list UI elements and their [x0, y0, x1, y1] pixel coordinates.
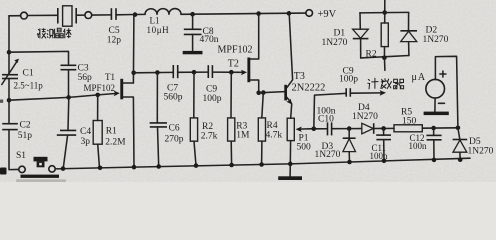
wire counter tap elbow: [314, 93, 346, 128]
capacitor C8: [184, 14, 202, 51]
label 被测晶体 (crystal under test): [37, 28, 71, 38]
junction node bridge bottom: [382, 55, 387, 60]
junction node T1 drain / C7: [131, 71, 136, 76]
resistor R2: [190, 72, 197, 165]
svg-text:560p: 560p: [164, 93, 183, 103]
scan tick left edge: [0, 100, 3, 103]
capacitor C5: [111, 8, 116, 20]
svg-text:C1: C1: [23, 69, 34, 79]
svg-text:D2: D2: [426, 26, 438, 36]
svg-text:MPF102: MPF102: [84, 83, 116, 93]
wire T3 base net: [259, 92, 285, 93]
transistor T1 MPF102 JFET: [120, 15, 134, 168]
ground under C8: [183, 51, 203, 54]
svg-text:D5: D5: [469, 137, 481, 147]
junction node D5 bottom: [458, 157, 463, 162]
blob bottom-left corner: [0, 168, 7, 175]
svg-text:C3: C3: [78, 64, 89, 74]
svg-text:270p: 270p: [165, 135, 184, 145]
ground main (below P1): [278, 164, 302, 180]
resistor R5: [394, 125, 422, 132]
diode D4: [362, 123, 374, 134]
wire bridge top rail: [360, 11, 409, 13]
svg-text:12p: 12p: [107, 36, 122, 46]
svg-text:C6: C6: [169, 124, 180, 134]
+9V supply terminal: [306, 9, 337, 20]
svg-text:51p: 51p: [18, 131, 33, 141]
svg-text:C9: C9: [206, 85, 217, 95]
diode D5: [453, 128, 468, 160]
wire ground rail: [55, 158, 470, 169]
terminal circle left of crystal: [21, 12, 28, 19]
svg-text:10μH: 10μH: [147, 25, 170, 35]
svg-text:L1: L1: [150, 16, 160, 26]
diode D2: [400, 12, 417, 55]
svg-text:R1: R1: [106, 127, 117, 137]
resistor R2 (meter shunt): [381, 23, 388, 58]
paper noise texture: [0, 0, 496, 182]
capacitor C3: [61, 65, 77, 97]
junction node R4 top: [261, 90, 266, 95]
svg-text:100n: 100n: [409, 141, 428, 151]
junction node at C5/T1 drain: [133, 12, 138, 17]
svg-text:1M: 1M: [236, 131, 250, 141]
svg-text:500: 500: [297, 143, 312, 153]
inductor L1: [145, 9, 181, 15]
wire top rail left (crystal row): [9, 13, 306, 16]
svg-text:1N270: 1N270: [322, 38, 348, 48]
junction node R2 bottom: [194, 163, 199, 168]
svg-text:μA: μA: [412, 72, 427, 83]
capacitor C4: [57, 97, 76, 168]
junction node bridge top: [382, 10, 387, 15]
switch S1: [19, 157, 59, 178]
junction node C6 bottom: [156, 164, 161, 169]
svg-text:3p: 3p: [81, 137, 91, 147]
wire left vertical (crystal to C1/C2): [9, 16, 19, 170]
svg-text:2.5~11p: 2.5~11p: [14, 81, 44, 91]
svg-text:56p: 56p: [78, 73, 93, 83]
diode D1: [353, 13, 369, 58]
junction node T3 collector: [287, 11, 292, 16]
wire to counter with arrow: [351, 90, 386, 96]
junction node D5 top / meter: [456, 126, 461, 131]
svg-text:150: 150: [402, 117, 417, 127]
svg-text:D1: D1: [334, 29, 346, 39]
potentiometer P1: [287, 118, 314, 164]
label 计数器 (counter): [367, 78, 403, 89]
junction node T1 source bottom: [132, 165, 137, 170]
junction node R3 bottom: [229, 163, 234, 168]
capacitor C10: [328, 122, 332, 135]
scan smudge under switch: [16, 179, 66, 182]
svg-text:T1: T1: [105, 72, 115, 82]
svg-text:MPF102: MPF102: [218, 45, 253, 56]
T1 gate arrowhead: [114, 91, 120, 97]
capacitor C12: [426, 128, 441, 160]
svg-text:S1: S1: [16, 151, 26, 161]
capacitor C2: [2, 124, 18, 130]
svg-text:C10: C10: [318, 115, 334, 125]
capacitor C6: [150, 73, 167, 167]
diode D3: [343, 129, 356, 162]
wire bridge center from top edge: [384, 0, 386, 23]
ground under meter: [424, 98, 449, 115]
junction node R3 top: [229, 70, 234, 75]
resistor R1: [93, 95, 102, 168]
svg-text:100p: 100p: [339, 75, 358, 85]
svg-text:C5: C5: [109, 26, 120, 36]
capacitor C11: [376, 128, 391, 160]
junction node gate wire left: [7, 98, 12, 103]
junction node D4/C11: [381, 126, 386, 131]
svg-text:1N270: 1N270: [423, 35, 449, 45]
junction node C10/D3/D4: [347, 126, 352, 131]
junction node C6 top: [155, 70, 160, 75]
transistor T2 MPF102 JFET: [241, 14, 259, 93]
svg-text:2.2M: 2.2M: [105, 138, 126, 148]
wire stub below bridge: [383, 58, 385, 71]
junction node at C8: [190, 12, 195, 17]
junction node C3/C4: [66, 95, 71, 100]
wire bridge bottom rail: [361, 56, 409, 58]
svg-text:2.7k: 2.7k: [201, 132, 218, 142]
junction node T2 drain: [256, 11, 261, 16]
svg-text:T3: T3: [294, 71, 305, 82]
svg-text:R2: R2: [202, 122, 213, 132]
resistor R3: [228, 72, 235, 165]
svg-text:2N2222: 2N2222: [292, 83, 326, 94]
junction node R2 top: [192, 70, 197, 75]
terminal circle right of crystal: [85, 12, 92, 19]
junction node R4 bottom: [259, 162, 264, 167]
svg-text:T2: T2: [228, 59, 239, 70]
svg-text:+9V: +9V: [318, 9, 337, 20]
svg-text:1N270: 1N270: [352, 112, 378, 122]
junction node C4 bottom: [61, 166, 66, 171]
capacitor C9 (coupling): [208, 65, 212, 78]
svg-text:1N270: 1N270: [468, 147, 494, 157]
capacitor C7: [173, 65, 177, 78]
junction node R1 bottom: [98, 166, 103, 171]
crystal X1 (被测晶体, crystal under test): [58, 6, 76, 26]
meter M1 uA: [426, 56, 458, 128]
svg-text:470n: 470n: [200, 35, 219, 45]
junction node R1 top: [95, 93, 100, 98]
svg-text:R4: R4: [267, 121, 278, 131]
junction node wiper/counter tap: [312, 126, 317, 131]
junction node T2 source / T3 base: [256, 91, 261, 96]
wire T1 gate net: [9, 94, 116, 101]
wire C3 branch: [9, 51, 69, 65]
junction node D3 bottom: [347, 160, 352, 165]
svg-text:100p: 100p: [203, 94, 222, 104]
junction node C12 bottom: [432, 158, 437, 163]
wire detector rail (P1 wiper to meter): [314, 128, 458, 129]
svg-text:4.7k: 4.7k: [266, 131, 283, 141]
resistor R4: [258, 93, 265, 165]
junction node C3 branch: [7, 50, 12, 55]
wire oscillator coupling net: [134, 71, 243, 74]
svg-text:C4: C4: [80, 127, 91, 137]
junction node C11 bottom: [382, 159, 387, 164]
capacitor C9 (counter output): [346, 88, 350, 97]
junction node P1 bottom / ground: [288, 162, 293, 167]
svg-text:1N270: 1N270: [315, 150, 341, 160]
junction node C12 top: [431, 126, 436, 131]
transistor T3 2N2222: [284, 14, 292, 119]
variable capacitor C1: [2, 59, 19, 85]
svg-text:C2: C2: [20, 121, 31, 131]
